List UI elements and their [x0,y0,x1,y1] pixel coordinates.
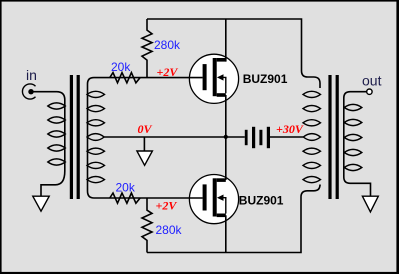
transistor Q2 internals [203,178,226,217]
wire: drain of Q1 to top rail [225,19,227,62]
wire: top rail from 280k to T2 primary top [147,19,320,88]
svg-text:280k: 280k [154,38,181,52]
svg-text:20k: 20k [116,181,136,195]
svg-text:out: out [362,73,382,89]
wire: T1 secondary top to gate line of Q1 [88,78,203,198]
wire: input connector to T1 primary top [34,92,65,197]
wire: source of Q2 to bottom rail [225,215,227,252]
resistor R1 20k (top) [110,73,140,83]
svg-text:280k: 280k [156,223,183,237]
output connector (out) [367,89,372,94]
transistor Q1 internals (gate bar, channel bar, stubs, arrow) [203,58,226,97]
resistor R3 20k (bottom) [110,193,140,203]
input connector (in) [22,84,35,99]
resistor R2 280k (top) [142,19,152,78]
svg-text:BUZ901: BUZ901 [243,72,288,86]
svg-text:20k: 20k [111,60,131,74]
resistor R4 280k (bottom) [142,198,152,253]
transformer T2 secondary winding (right, loops bulge right) [344,104,362,170]
ground (center, below 0V line) [137,151,153,165]
ground (right, below T2 secondary) [362,196,378,212]
ground (left, below T1 primary) [33,196,49,211]
wire: battery positive to T2 center tap [270,136,303,138]
svg-text:0V: 0V [138,122,153,136]
transformer T1 secondary winding (right of core, loops bulge right) [87,91,105,182]
battery B1 plates [245,127,270,148]
wire: T1 center tap 0V line to battery [104,136,245,138]
wire: ground stub under 0V [143,137,145,152]
svg-text:+30V: +30V [276,122,304,136]
transformer T1 primary winding (left, loops bulge left) [48,103,66,165]
wire: bottom rail from 280k to T2 primary bottom [147,185,320,253]
transformer T1 core [70,75,80,199]
svg-text:BUZ901: BUZ901 [239,193,284,207]
wire: source of Q1 to drain of Q2 through center node [225,95,227,180]
transistor Q2 body circle (BUZ901 bottom) [189,175,238,224]
svg-text:+2V: +2V [156,199,178,213]
wire: T2 secondary top to out connector [344,92,371,197]
transistor Q1 body circle (BUZ901 top) [189,54,238,103]
svg-text:+2V: +2V [157,65,179,79]
svg-text:in: in [26,67,37,83]
transformer T2 primary winding (left of core, loops bulge left) [303,91,321,182]
node: junction dot at center 0V [224,135,228,139]
border frame [0,0,2,274]
transformer T2 core [328,75,338,199]
